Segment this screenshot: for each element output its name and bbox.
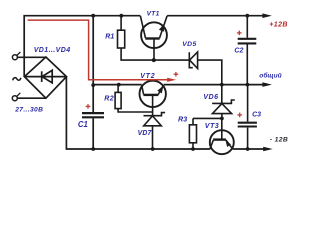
svg-text:R1: R1 (105, 34, 114, 41)
wire: bottom rail right segment from VT3 emitter to -12V arrow (233, 148, 264, 150)
resistor R3 (189, 118, 221, 149)
zener diode VD6 (212, 85, 235, 119)
plus mark C1 (86, 104, 91, 109)
zener diode VD7 (144, 113, 166, 149)
wire: vertical from top rail down to C1 (92, 16, 94, 113)
red path arrowhead (167, 78, 176, 82)
svg-text:VD1...VD4: VD1...VD4 (34, 47, 71, 54)
wire: C1 bottom plate to bottom rail (92, 118, 94, 149)
bridge rectifier VD1...VD4 (24, 57, 66, 98)
red plus mark near arrow (174, 72, 179, 77)
transistor VT1 (140, 16, 167, 60)
svg-text:VT1: VT1 (147, 10, 160, 17)
svg-text:VD6: VD6 (203, 94, 218, 101)
svg-text:- 12В: - 12В (270, 136, 288, 143)
junction bottom rail C1 (91, 147, 95, 151)
junction top rail at x=93 (91, 14, 95, 18)
plus mark C2 (237, 31, 242, 36)
junction middle rail C2/C3 (246, 83, 250, 87)
junction middle rail VD5/VD6 (220, 83, 224, 87)
wire: common middle rail right segment (164, 84, 264, 86)
junction top rail C2 (245, 14, 249, 18)
svg-text:C2: C2 (234, 47, 243, 54)
svg-text:VD7: VD7 (138, 130, 153, 137)
AC tilde symbol (13, 78, 21, 81)
svg-text:R3: R3 (178, 114, 187, 123)
svg-text:VT2: VT2 (140, 73, 155, 80)
wire: terminal 1 to bridge top vertex (17, 56, 46, 58)
junction bottom rail C3 (246, 147, 250, 151)
wire: top rail left segment from corner to VT1 collector (24, 16, 140, 77)
capacitor C1 (82, 113, 104, 117)
svg-text:VD5: VD5 (182, 41, 196, 48)
svg-text:+12В: +12В (269, 21, 288, 28)
svg-text:C3: C3 (252, 111, 261, 118)
output arrow common (259, 72, 281, 87)
junction middle rail at x=93 (91, 83, 95, 87)
svg-text:C1: C1 (78, 120, 88, 129)
plus mark C3 (237, 113, 242, 118)
junction bottom rail R3 (191, 147, 195, 151)
capacitor C3 (238, 85, 257, 149)
wire: terminal 2 to bridge bottom vertex (17, 97, 46, 99)
output arrow +12V (262, 13, 288, 28)
terminal input 2 (12, 93, 20, 101)
junction bottom rail VD7 (151, 147, 155, 151)
svg-text:VT3: VT3 (205, 122, 219, 130)
svg-text:общий: общий (259, 72, 281, 80)
junction VT1 base node (152, 58, 156, 62)
resistor R2 (115, 85, 153, 112)
wire: bottom rail from bridge right vertex to VT3 collector (66, 77, 210, 149)
junction VT3 base node (220, 117, 224, 121)
svg-text:R2: R2 (104, 95, 114, 103)
wire: common middle rail left segment (93, 84, 141, 86)
output arrow -12V (263, 136, 288, 151)
terminal input 1 (12, 52, 20, 60)
zener diode VD5 (154, 52, 222, 85)
junction top rail R1 (119, 14, 123, 18)
junction middle rail R2 (117, 83, 121, 87)
transistor VT3 (210, 118, 234, 154)
capacitor C2 (238, 16, 257, 85)
transistor VT2 (140, 81, 166, 116)
resistor R1 (118, 16, 154, 60)
svg-text:27...30В: 27...30В (14, 106, 43, 113)
wire: top rail right segment from VT1 emitter to +12V arrow (167, 15, 263, 17)
red highlighted current path (28, 20, 168, 80)
